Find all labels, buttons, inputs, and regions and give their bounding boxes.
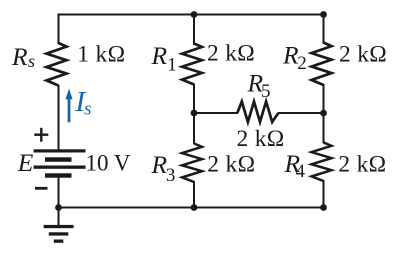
node B (191, 110, 198, 117)
svg-text:1: 1 (167, 54, 177, 75)
battery E plate2 (45, 157, 72, 162)
svg-text:2 kΩ: 2 kΩ (237, 126, 285, 152)
wire R2 to node C (323, 84, 325, 113)
node bottom middle (191, 204, 198, 211)
wire bottom rail (59, 207, 325, 209)
wire battery to bottom rail (58, 177, 60, 208)
wire middle branch upper (193, 15, 195, 46)
svg-text:3: 3 (166, 165, 176, 186)
wire Rs to battery (58, 85, 60, 150)
svg-text:4: 4 (296, 161, 306, 182)
resistor R2 (312, 43, 332, 86)
battery plus sign (34, 128, 48, 142)
resistor Rs (47, 43, 67, 86)
node top right (320, 11, 327, 18)
wire R5 to node C (278, 112, 324, 114)
current Is arrow (65, 89, 72, 123)
svg-text:R: R (151, 41, 168, 70)
svg-text:2 kΩ: 2 kΩ (339, 42, 387, 68)
ground stem (58, 208, 60, 227)
battery E plate4 (45, 173, 72, 177)
wire node B to R3 (193, 113, 195, 144)
svg-text:1 kΩ: 1 kΩ (77, 42, 125, 68)
wire top rail (58, 14, 325, 16)
wire node B to R5 (194, 112, 238, 114)
battery E plate3 (34, 166, 86, 169)
battery minus sign (35, 187, 48, 190)
wire left branch upper (58, 14, 60, 45)
svg-text:5: 5 (261, 81, 271, 102)
node bottom left (55, 204, 62, 211)
resistor R5 (237, 102, 278, 123)
ground bar3 (54, 240, 64, 243)
svg-text:E: E (17, 148, 34, 177)
battery E plate1 (34, 149, 86, 152)
wire right branch upper (323, 15, 325, 45)
svg-text:2 kΩ: 2 kΩ (207, 41, 255, 67)
resistor R3 (182, 144, 202, 183)
svg-text:2 kΩ: 2 kΩ (338, 152, 386, 178)
ground bar1 (44, 225, 74, 228)
svg-text:R: R (11, 42, 28, 71)
wire node C to R4 (323, 113, 325, 143)
wire R3 to bottom rail (193, 181, 195, 208)
resistor R1 (182, 44, 202, 85)
svg-text:2 kΩ: 2 kΩ (207, 152, 255, 178)
svg-text:s: s (84, 99, 91, 120)
wire R1 to node B (193, 84, 195, 114)
svg-text:10 V: 10 V (86, 151, 131, 176)
wire R4 to bottom rail (323, 180, 325, 208)
svg-text:s: s (28, 51, 35, 71)
node C (320, 110, 327, 117)
node top middle (191, 11, 198, 18)
node bottom right (320, 204, 327, 211)
resistor R4 (312, 143, 332, 182)
svg-text:2: 2 (297, 53, 307, 74)
ground bar2 (49, 232, 69, 235)
